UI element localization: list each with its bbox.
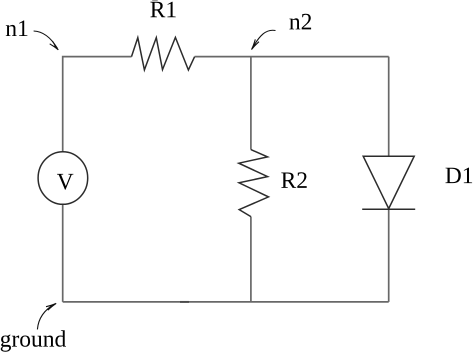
diode D1 cathode bar — [362, 208, 415, 210]
wire V source bottom to ground rail — [62, 204, 64, 302]
label R1 — [150, 2, 175, 18]
label ground — [1, 330, 66, 351]
diode D1 triangle — [363, 156, 414, 208]
wire overlap joint on ground rail — [180, 301, 189, 303]
wire node n2 down to R2 top — [250, 57, 252, 150]
cropped artifact above R1 — [152, 0, 158, 1]
voltage source V circle — [38, 152, 88, 205]
resistor R1 — [132, 37, 195, 70]
label V — [57, 174, 73, 190]
wire R1 to top-right corner through node n2 — [195, 56, 389, 58]
resistor R2 — [239, 150, 269, 217]
wire top-right corner down to D1 anode — [388, 57, 390, 157]
label n2 — [289, 14, 311, 30]
arrow to node n1 — [34, 31, 59, 50]
arrow to ground rail — [37, 303, 56, 329]
wire bottom ground rail — [63, 301, 389, 303]
wire D1 cathode down to ground rail — [388, 209, 390, 302]
label D1 — [446, 168, 473, 184]
wire R2 bottom to ground rail — [250, 217, 252, 302]
arrow to node n2 — [252, 30, 276, 49]
label R2 — [281, 172, 306, 188]
wire n1 corner: top-left vertical and horizontal to R1 — [63, 57, 132, 153]
label n1 — [6, 21, 28, 37]
